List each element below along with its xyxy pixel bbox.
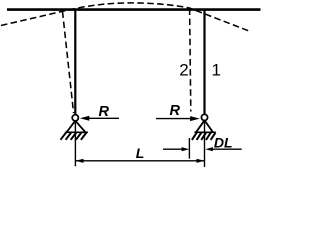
deformed right column (dashed)	[190, 9, 191, 112]
svg-text:R: R	[99, 104, 110, 120]
svg-text:DL: DL	[214, 135, 233, 151]
left support center line / extension line	[74, 121, 76, 166]
force arrow R at left support	[80, 116, 119, 121]
svg-text:1: 1	[212, 61, 221, 80]
right support hatching	[192, 133, 216, 140]
dimension line L	[76, 159, 205, 163]
svg-text:L: L	[136, 145, 145, 161]
deformed beam (dashed, position 2)	[1, 3, 249, 31]
svg-text:R: R	[170, 103, 181, 119]
right pin support	[195, 114, 216, 132]
beam (deck, position 1)	[7, 8, 261, 11]
left column (position 1)	[74, 11, 76, 116]
force arrow R at right support	[156, 116, 200, 121]
dimension DL right arrow	[205, 147, 241, 151]
extension line for DL (displaced axis)	[188, 138, 190, 159]
right support center line / extension line	[204, 121, 206, 167]
left support hatching	[61, 133, 87, 140]
dimension DL left arrow	[163, 147, 189, 151]
svg-text:2: 2	[179, 61, 188, 80]
deformed left column (dashed)	[63, 12, 74, 114]
left pin support	[65, 115, 88, 133]
right column (position 1)	[203, 11, 205, 115]
